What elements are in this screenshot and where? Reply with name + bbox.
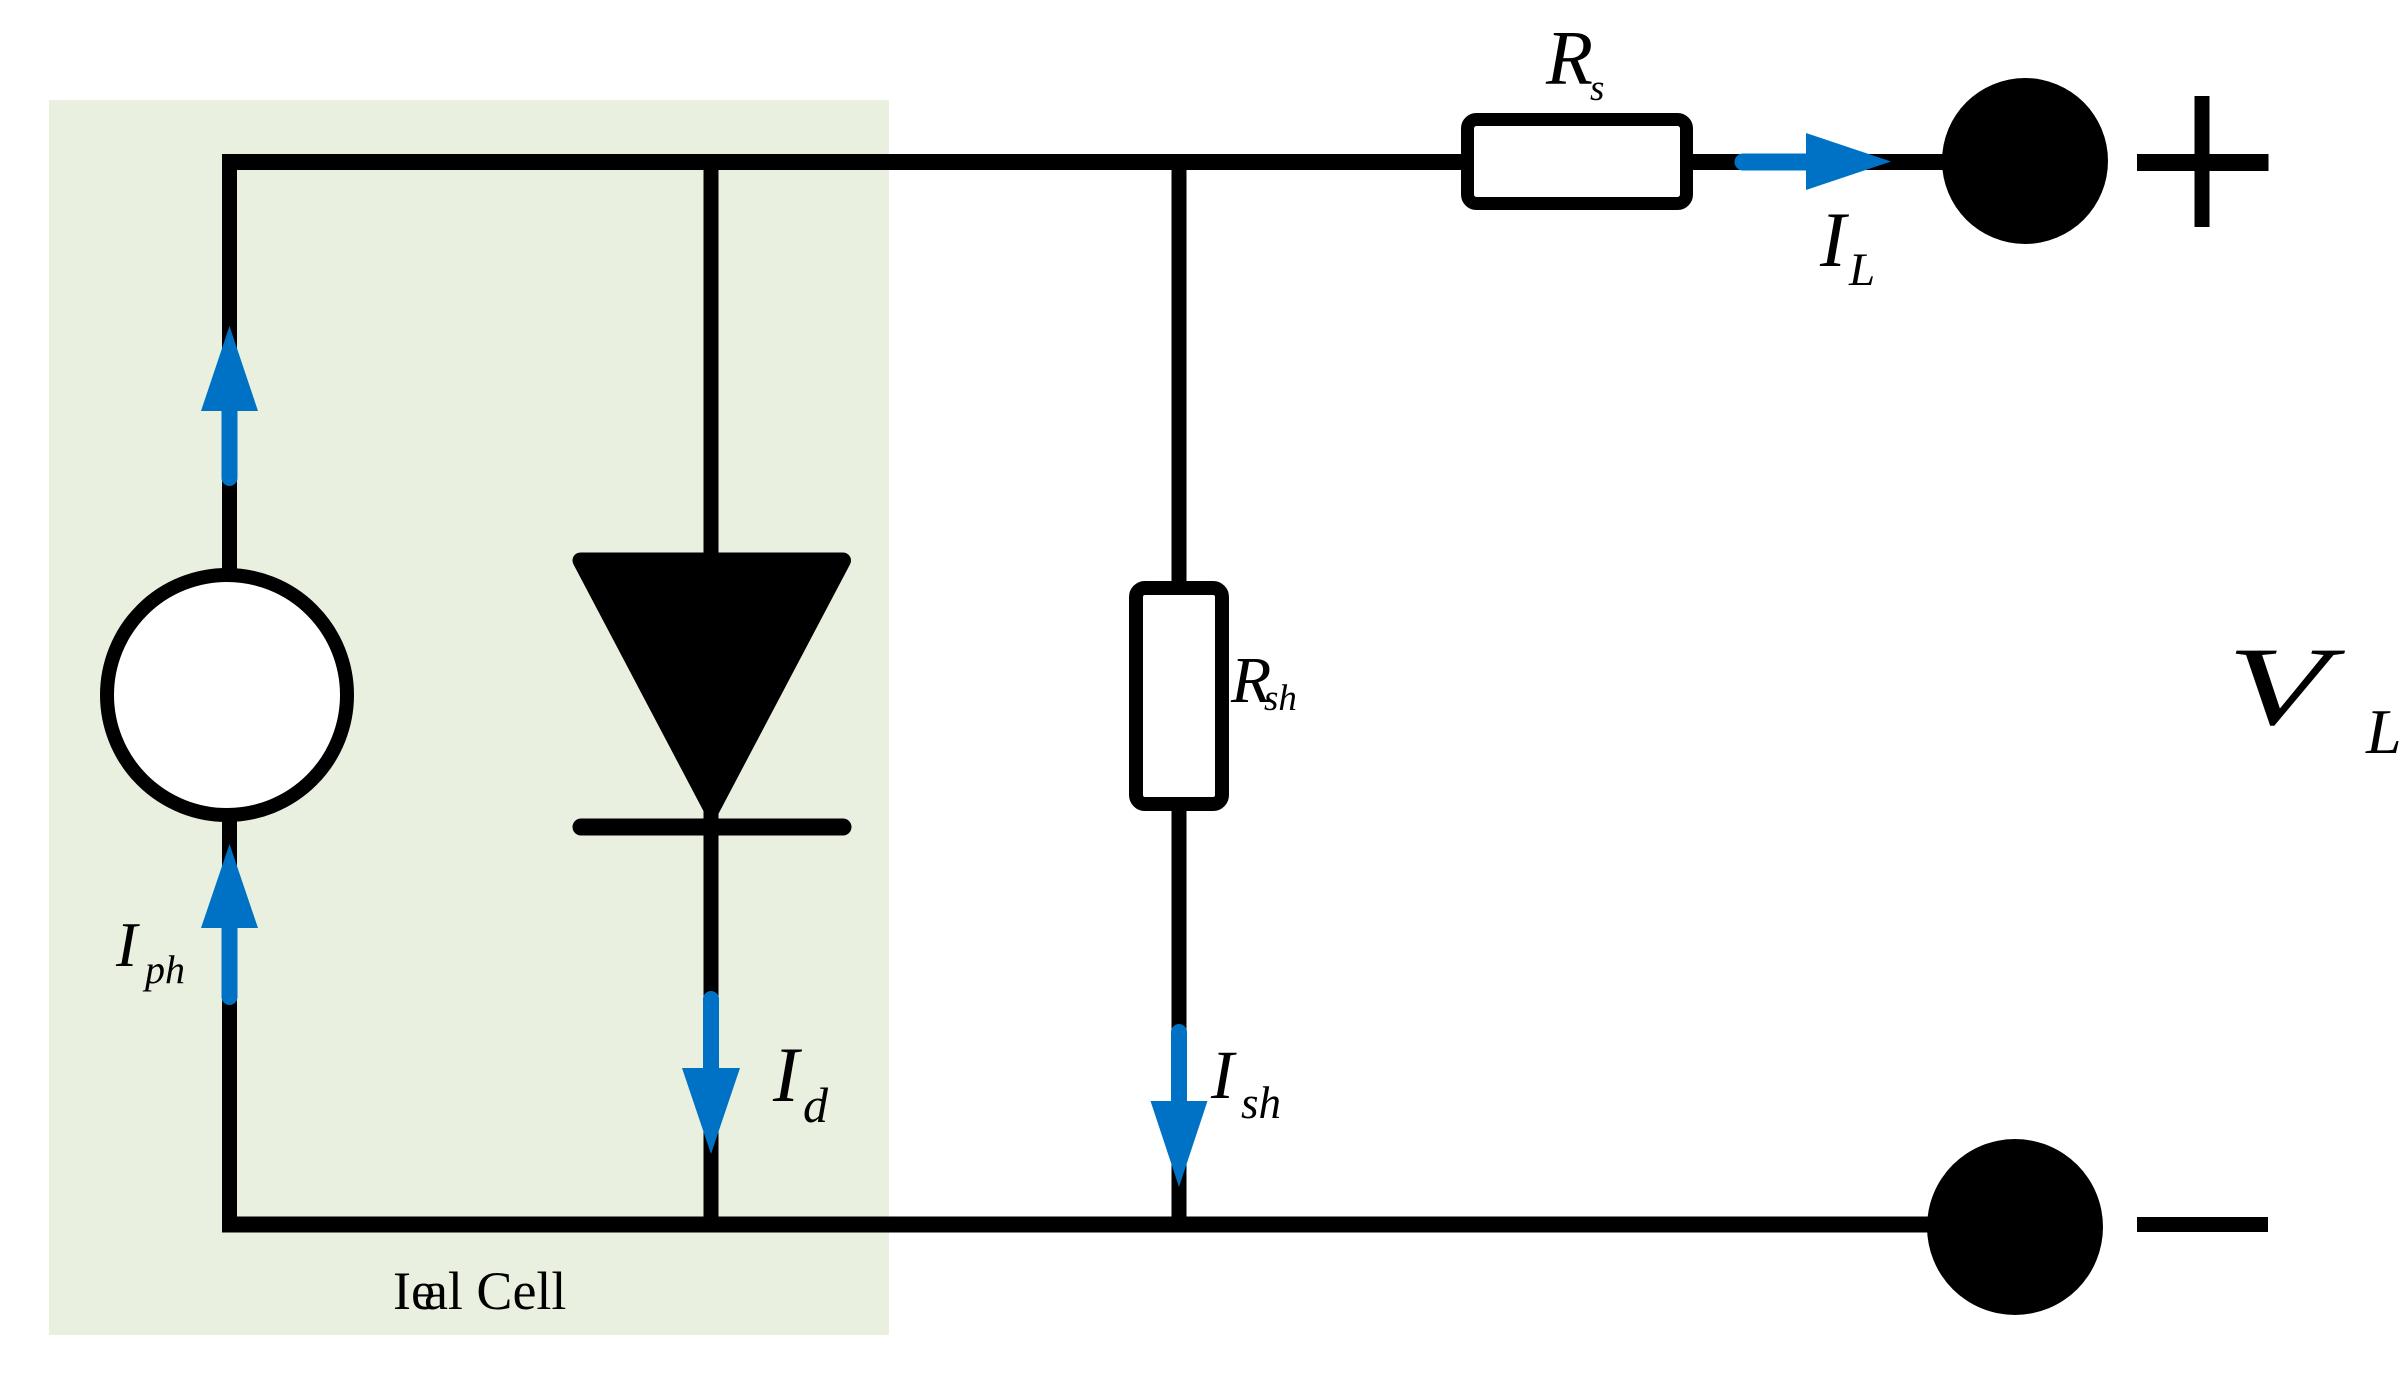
current arrow I_ph lower bbox=[201, 844, 258, 997]
svg-text:R: R bbox=[1545, 15, 1593, 101]
svg-text:L: L bbox=[1848, 244, 1875, 296]
current source I_ph (circle symbol) bbox=[107, 575, 347, 815]
resistor R_sh bbox=[1136, 588, 1222, 804]
label R_s bbox=[1545, 15, 1604, 110]
svg-text:s: s bbox=[1590, 68, 1604, 109]
ideal cell region bbox=[49, 100, 889, 1335]
label I_ph bbox=[115, 909, 185, 992]
svg-text:sh: sh bbox=[1264, 678, 1297, 719]
current arrow I_sh bbox=[1151, 1032, 1208, 1187]
current arrow I_L bbox=[1743, 133, 1891, 190]
node negative terminal bbox=[1927, 1139, 2103, 1315]
current arrow I_ph upper bbox=[201, 326, 258, 478]
diode D1 bbox=[581, 561, 844, 828]
label Ideal Cell bbox=[393, 1261, 566, 1321]
minus sign bbox=[2137, 1217, 2268, 1232]
svg-text:I: I bbox=[772, 1031, 803, 1118]
svg-text:ph: ph bbox=[142, 947, 185, 992]
wire bottom net (node B to negative terminal) bbox=[222, 1217, 2015, 1233]
wire top net (node A to positive terminal) bbox=[222, 154, 2025, 170]
svg-text:V: V bbox=[2227, 625, 2346, 749]
label V_L bbox=[2227, 625, 2402, 767]
svg-text:d: d bbox=[803, 1077, 829, 1133]
label I_L bbox=[1819, 196, 1875, 296]
wire diode branch bbox=[704, 162, 719, 1225]
label I_d bbox=[772, 1031, 829, 1133]
svg-text:I: I bbox=[115, 909, 140, 980]
node positive terminal bbox=[1942, 78, 2108, 244]
svg-text:L: L bbox=[2365, 696, 2402, 767]
wire left branch (photocurrent source branch) bbox=[222, 154, 237, 1225]
current arrow I_d bbox=[682, 999, 740, 1154]
svg-text:sh: sh bbox=[1241, 1078, 1281, 1128]
svg-text:I: I bbox=[1819, 196, 1850, 283]
wire shunt branch bbox=[1172, 162, 1187, 1225]
svg-text:Ieal Cell: Ieal Cell bbox=[393, 1261, 566, 1321]
plus sign bbox=[2137, 96, 2269, 227]
label R_sh bbox=[1230, 644, 1297, 719]
label I_sh bbox=[1210, 1037, 1281, 1128]
svg-text:I: I bbox=[1210, 1037, 1237, 1113]
resistor R_s bbox=[1468, 120, 1687, 204]
